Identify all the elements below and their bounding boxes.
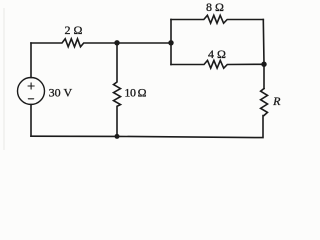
svg-text:10 Ω: 10 Ω — [124, 86, 146, 100]
svg-text:8 Ω: 8 Ω — [206, 0, 224, 14]
svg-text:4 Ω: 4 Ω — [208, 47, 226, 61]
svg-text:2 Ω: 2 Ω — [64, 23, 82, 37]
svg-text:30 V: 30 V — [49, 85, 73, 99]
svg-text:R: R — [272, 94, 281, 108]
